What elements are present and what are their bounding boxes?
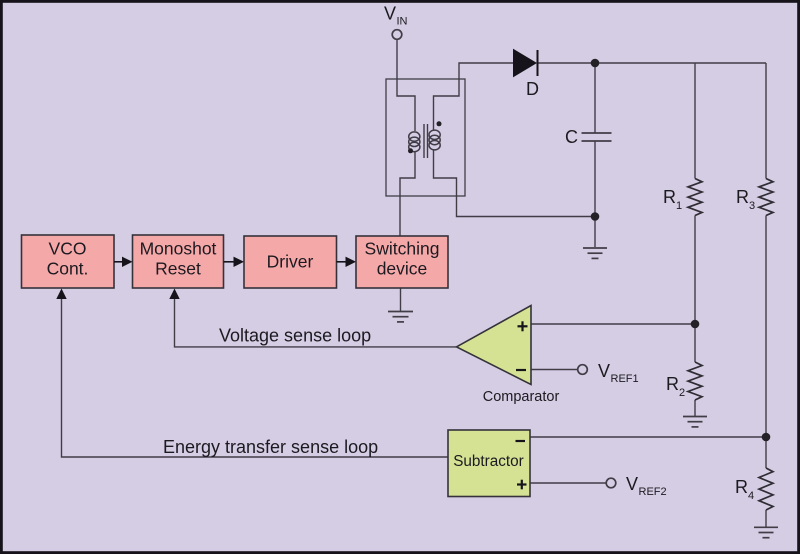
svg-text:device: device bbox=[377, 259, 428, 279]
svg-text:Monoshot: Monoshot bbox=[140, 239, 217, 259]
wire: subtractor minus input to right rail node bbox=[530, 436, 766, 438]
transformer secondary winding bbox=[429, 130, 440, 150]
wire: capacitor bottom to ground bbox=[594, 141, 596, 247]
svg-text:R: R bbox=[736, 187, 749, 207]
svg-text:Comparator: Comparator bbox=[483, 389, 560, 405]
svg-text:V: V bbox=[384, 4, 396, 24]
svg-text:V: V bbox=[598, 361, 610, 381]
subtractor minus sign bbox=[516, 440, 526, 442]
wire: R3 column right rail upper bbox=[765, 63, 767, 179]
wire: minus node to R4 bbox=[765, 437, 767, 468]
svg-text:REF2: REF2 bbox=[639, 486, 667, 498]
svg-text:1: 1 bbox=[676, 200, 682, 212]
arrow VCO to Monoshot bbox=[114, 261, 123, 263]
diode D bbox=[514, 50, 537, 77]
node: R3-R4-subtractor junction bbox=[762, 433, 771, 442]
block Monoshot Reset bbox=[133, 235, 224, 288]
wire: R1 bottom to plus node bbox=[694, 216, 696, 325]
resistor R3 bbox=[759, 179, 773, 216]
transformer T1 box bbox=[386, 79, 465, 196]
svg-text:R: R bbox=[735, 477, 748, 497]
wire: diode cathode to top rail right end bbox=[538, 62, 767, 64]
resistor R2 bbox=[688, 362, 702, 400]
svg-text:R: R bbox=[663, 187, 676, 207]
svg-text:R: R bbox=[666, 374, 679, 394]
svg-text:Switching: Switching bbox=[365, 239, 440, 259]
svg-text:4: 4 bbox=[748, 490, 754, 502]
svg-text:Subtractor: Subtractor bbox=[453, 453, 524, 470]
wire: R1 column from rail bbox=[694, 63, 696, 179]
wire: switching device to ground bbox=[400, 288, 402, 311]
wire: subtractor plus input to Vref2 bbox=[530, 482, 606, 484]
wire: R4 bottom to ground bbox=[765, 510, 767, 527]
transformer primary winding bbox=[409, 132, 420, 152]
block Driver bbox=[244, 236, 337, 288]
wire: comparator plus input to R1/R2 node bbox=[531, 323, 695, 325]
transformer core bbox=[423, 124, 425, 158]
arrow Driver to Switching device bbox=[337, 261, 347, 263]
block VCO Cont. bbox=[22, 235, 115, 288]
svg-text:3: 3 bbox=[749, 200, 755, 212]
wire: secondary top to diode anode bbox=[434, 63, 514, 130]
block Subtractor bbox=[448, 430, 530, 497]
svg-text:Energy transfer sense loop: Energy transfer sense loop bbox=[163, 437, 378, 457]
comparator minus sign bbox=[516, 369, 526, 371]
transformer primary dot bbox=[408, 148, 413, 153]
wire: plus node to R2 and ground bbox=[694, 324, 696, 362]
wire: R3 bottom to minus node bbox=[765, 216, 767, 438]
wire: secondary bottom to cap node bbox=[434, 150, 596, 217]
terminal Vref2 bbox=[606, 478, 616, 488]
arrow into Monoshot bottom bbox=[169, 289, 179, 300]
resistor R4 bbox=[759, 468, 773, 510]
ground below R2 bbox=[683, 417, 707, 427]
svg-text:VCO: VCO bbox=[49, 239, 87, 259]
terminal Vref1 bbox=[578, 365, 588, 375]
op-amp comparator bbox=[456, 306, 531, 385]
resistor R1 bbox=[688, 179, 702, 216]
svg-text:2: 2 bbox=[679, 387, 685, 399]
wire: capacitor top branch bbox=[594, 63, 596, 133]
arrow Monoshot to Driver bbox=[224, 261, 235, 263]
ground below capacitor bbox=[583, 248, 607, 258]
wire: voltage sense loop from comparator output to monoshot bbox=[175, 293, 457, 347]
svg-text:C: C bbox=[565, 127, 578, 147]
svg-text:Driver: Driver bbox=[267, 251, 314, 271]
svg-text:REF1: REF1 bbox=[611, 373, 639, 385]
arrow into VCO bottom bbox=[56, 289, 66, 300]
node: diode-cap junction bbox=[591, 59, 600, 68]
svg-text:Cont.: Cont. bbox=[47, 259, 89, 279]
ground below R4 bbox=[754, 527, 778, 537]
terminal Vin bbox=[392, 30, 402, 40]
svg-text:D: D bbox=[526, 79, 539, 99]
wire: primary bottom to switching device bbox=[400, 152, 415, 236]
ground below switching device bbox=[388, 312, 413, 322]
node: cap bottom junction bbox=[591, 212, 600, 221]
comparator plus sign bbox=[518, 321, 528, 331]
block Switching device bbox=[356, 236, 448, 288]
capacitor C bbox=[582, 132, 612, 134]
subtractor plus sign bbox=[517, 480, 527, 490]
svg-text:V: V bbox=[626, 474, 638, 494]
svg-text:Reset: Reset bbox=[155, 259, 201, 279]
wire: Vin terminal to primary top bbox=[397, 40, 415, 132]
transformer secondary dot bbox=[437, 121, 442, 126]
node: R1-R2-comparator junction bbox=[691, 320, 700, 329]
wire: comparator minus input to Vref1 bbox=[531, 369, 578, 371]
svg-text:IN: IN bbox=[397, 16, 408, 28]
wire: energy transfer sense loop to VCO bbox=[62, 293, 449, 457]
svg-text:Voltage sense loop: Voltage sense loop bbox=[219, 326, 371, 346]
